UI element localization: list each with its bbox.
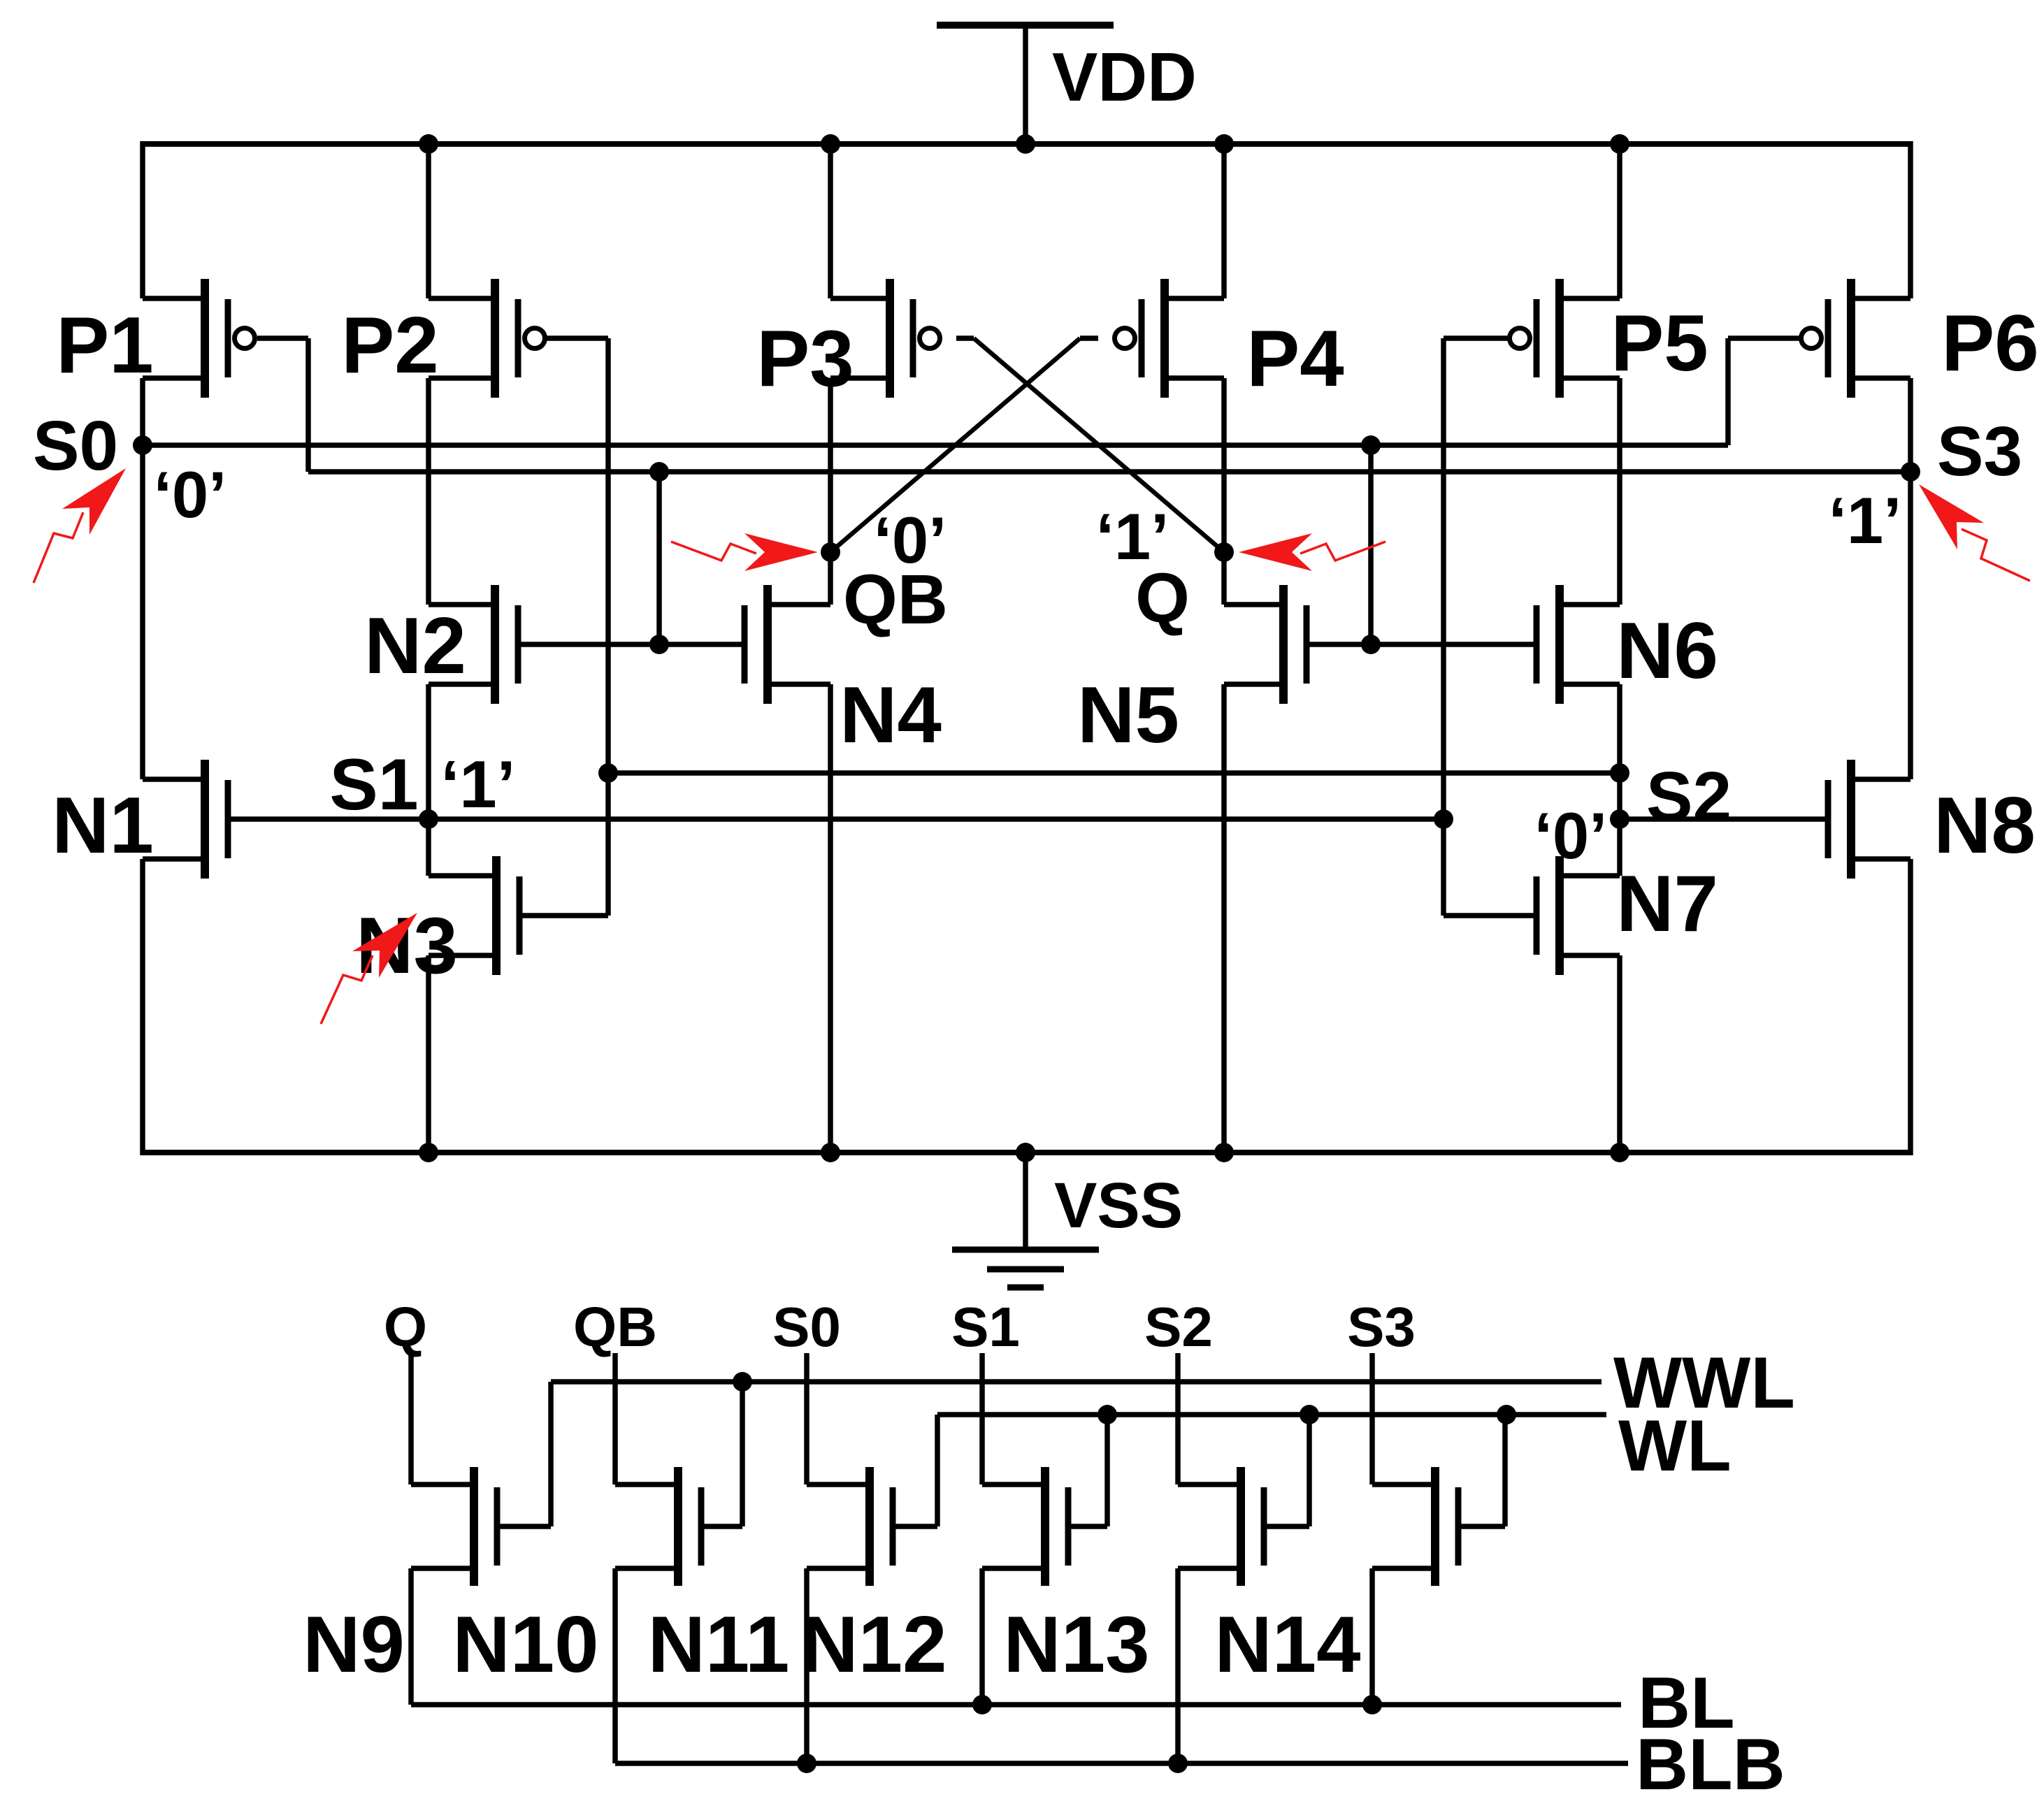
wire VDD rail	[143, 141, 1910, 147]
wire N11 gate lead	[893, 1524, 937, 1529]
wire N5-N6 gate line	[1307, 642, 1536, 647]
label S1 node	[329, 744, 418, 825]
label S0 terminal	[772, 1296, 841, 1358]
node VDD rail junction P4	[1214, 134, 1234, 154]
wire S0 line	[143, 442, 1728, 448]
svg-text:N13: N13	[1003, 1601, 1149, 1689]
label N3	[356, 902, 458, 990]
svg-text:P4: P4	[1246, 315, 1344, 403]
wire N14 gate vertical	[1502, 1415, 1508, 1526]
wire N6 source / N7 drain column (S2 column)	[1617, 684, 1622, 876]
red arrow pointing at S1	[321, 913, 417, 1024]
wire N3 source column	[426, 955, 431, 1153]
svg-text:‘1’: ‘1’	[1829, 484, 1902, 557]
wire N10 source vertical	[612, 1568, 618, 1763]
node S1 line right junction (P5 gate)	[1434, 809, 1453, 829]
node Q	[1214, 542, 1234, 562]
wire S2 terminal vertical to N13 drain	[1175, 1353, 1181, 1484]
node S0 line to N5/N6 gates junction	[1361, 435, 1381, 455]
wire N11 source vertical	[804, 1568, 809, 1763]
wire P6 gate to S0 line	[1728, 338, 1801, 445]
transistor P6	[1801, 279, 1911, 398]
label N2	[364, 602, 466, 691]
label N14	[1214, 1601, 1360, 1689]
svg-text:N5: N5	[1077, 671, 1179, 760]
label value 0 at S2	[1534, 799, 1608, 872]
transistor N11	[807, 1467, 893, 1586]
node S2 line left junction (P2 gate)	[598, 763, 618, 783]
svg-text:N6: N6	[1616, 607, 1718, 695]
label Q terminal	[384, 1296, 427, 1358]
wire N2 source / N3 drain column (S1 column)	[426, 684, 431, 876]
label N12	[800, 1601, 947, 1689]
wire P5 gate vertical to S1 line and N7 gate	[1444, 338, 1510, 916]
wire P5 drain column	[1617, 144, 1622, 298]
transistor P2	[429, 279, 545, 398]
label N13	[1003, 1601, 1149, 1689]
node S2	[1610, 763, 1629, 783]
label S3 terminal	[1347, 1296, 1416, 1358]
wire WL line	[937, 1412, 1606, 1417]
transistor P1	[143, 279, 255, 398]
label QB terminal	[573, 1296, 657, 1358]
label N8	[1934, 781, 2036, 870]
svg-text:QB: QB	[573, 1296, 657, 1358]
wire P4 drain column	[1221, 144, 1227, 298]
wire P3 source / N4 drain column (QB column)	[828, 378, 833, 605]
wire N2-N4 gate line	[518, 642, 744, 647]
node QB	[821, 542, 840, 562]
label S2 terminal	[1144, 1296, 1213, 1358]
svg-text:VDD: VDD	[1052, 38, 1197, 115]
wire P2 source / N2 drain column	[426, 378, 431, 605]
wire left edge middle segment (S0 column)	[140, 378, 145, 779]
svg-text:N14: N14	[1214, 1601, 1360, 1689]
svg-text:‘0’: ‘0’	[154, 458, 227, 531]
red arrow pointing at Q	[1239, 533, 1386, 571]
wire N2-N4 gates to S3 line vertical	[656, 472, 662, 644]
transistor N1	[143, 760, 228, 879]
label N6	[1616, 607, 1718, 695]
wire S1 / N1 gate line	[228, 816, 1444, 822]
svg-text:N4: N4	[840, 671, 942, 760]
svg-text:BLB: BLB	[1636, 1724, 1785, 1805]
node VSS rail junction N5	[1214, 1143, 1234, 1162]
label S0	[33, 407, 118, 485]
label value 0 at QB	[874, 503, 947, 577]
node BLB junction N13 source	[1168, 1754, 1188, 1773]
VDD supply symbol	[937, 25, 1114, 144]
svg-text:S0: S0	[772, 1296, 841, 1358]
label value 1 at Q	[1096, 500, 1169, 573]
node N5-N6 gate junction	[1361, 635, 1381, 654]
transistor N7	[1536, 856, 1620, 975]
svg-text:N9: N9	[303, 1601, 405, 1689]
svg-text:N1: N1	[52, 781, 154, 870]
label value 0 at S0	[154, 458, 227, 531]
wire S0 terminal vertical to N11 drain	[804, 1353, 809, 1484]
label S1 terminal	[951, 1296, 1020, 1358]
label P3	[756, 315, 854, 403]
node BL junction N14 source	[1362, 1695, 1382, 1714]
wire P1 gate to S3 line	[257, 338, 308, 472]
node VSS rail junction N3	[419, 1143, 438, 1162]
label N4	[840, 671, 942, 760]
wire N9 gate lead	[497, 1524, 551, 1529]
svg-text:‘1’: ‘1’	[441, 747, 516, 822]
node BL junction N12 source	[972, 1695, 992, 1714]
label N11	[648, 1601, 790, 1689]
wire right edge lower segment	[1908, 859, 1913, 1155]
wire N5-N6 gates to S0 line vertical	[1368, 445, 1374, 644]
svg-text:N11: N11	[648, 1601, 790, 1689]
label P1	[56, 301, 153, 390]
svg-text:S0: S0	[33, 407, 118, 485]
transistor P3	[830, 279, 940, 398]
label S2 node	[1646, 758, 1732, 836]
svg-text:P2: P2	[341, 301, 438, 390]
wire N7 gate lead	[1444, 913, 1537, 918]
node S0	[133, 435, 152, 455]
node WL junction N14 gate	[1497, 1405, 1516, 1424]
transistor N6	[1536, 585, 1620, 704]
red arrow pointing at QB	[671, 533, 818, 571]
wire N10 gate vertical	[740, 1382, 745, 1526]
svg-text:‘1’: ‘1’	[1096, 500, 1169, 573]
wire N8 gate line	[1620, 816, 1828, 822]
node VSS rail junction VSS stem	[1016, 1143, 1035, 1162]
svg-text:‘0’: ‘0’	[1534, 799, 1608, 872]
svg-text:S3: S3	[1937, 412, 2022, 491]
transistor N13	[1178, 1467, 1264, 1586]
transistor N12	[982, 1467, 1068, 1586]
svg-text:N8: N8	[1934, 781, 2036, 870]
wire N11 gate vertical	[935, 1415, 940, 1526]
label P4	[1246, 315, 1344, 403]
transistor N8	[1828, 760, 1910, 879]
wire N9 source vertical	[408, 1568, 414, 1705]
node WWL junction N10 gate	[733, 1372, 752, 1392]
svg-text:‘0’: ‘0’	[874, 503, 947, 577]
label WWL	[1613, 1343, 1795, 1424]
VDD label	[1052, 38, 1197, 115]
label P2	[341, 301, 438, 390]
wire N12 gate lead	[1068, 1524, 1107, 1529]
svg-text:N12: N12	[800, 1601, 947, 1689]
node VDD rail junction P3	[821, 134, 840, 154]
wire VSS rail	[143, 1150, 1910, 1155]
label N7	[1616, 860, 1718, 948]
wire P4 gate cross-couple to node QB	[830, 338, 1098, 552]
node VSS rail junction N4	[821, 1143, 840, 1162]
node VDD rail junction VDD stem	[1016, 134, 1035, 154]
wire N12 gate vertical	[1104, 1415, 1110, 1526]
node N2-N4 gate junction	[649, 635, 669, 654]
svg-text:N10: N10	[452, 1601, 598, 1689]
wire P3 drain column	[828, 144, 833, 298]
node S3 line to N2/N4 gates junction	[649, 462, 669, 482]
wire N7 source column	[1617, 955, 1622, 1153]
label N1	[52, 781, 154, 870]
wire P5 source / N6 drain column	[1617, 378, 1622, 605]
svg-text:N7: N7	[1616, 860, 1718, 948]
wire N14 gate lead	[1458, 1524, 1505, 1529]
wire S1 terminal vertical to N12 drain	[979, 1353, 985, 1484]
label value 1 at S3	[1829, 484, 1902, 557]
node N8 gate to S2 column junction	[1610, 809, 1629, 829]
transistor N10	[615, 1467, 701, 1586]
wire right edge upper segment	[1908, 141, 1913, 298]
svg-text:S1: S1	[951, 1296, 1020, 1358]
VSS label	[1054, 1170, 1183, 1241]
svg-text:VSS: VSS	[1054, 1170, 1183, 1241]
transistor N4	[744, 585, 830, 704]
label BLB	[1636, 1724, 1785, 1805]
wire P3 gate cross-couple to node Q	[956, 338, 1224, 552]
svg-text:P3: P3	[756, 315, 854, 403]
wire N5 source column	[1221, 684, 1227, 1153]
wire N4 source column	[828, 684, 833, 1153]
transistor P4	[1115, 279, 1225, 398]
label N9	[303, 1601, 405, 1689]
wire N9 gate vertical	[548, 1382, 554, 1526]
red arrow pointing at S0	[34, 468, 126, 583]
label N10	[452, 1601, 598, 1689]
node S1	[419, 809, 438, 829]
node WL junction N12 gate	[1097, 1405, 1117, 1424]
node VDD rail junction P2	[419, 134, 438, 154]
wire N13 gate vertical	[1307, 1415, 1312, 1526]
label BL	[1638, 1663, 1735, 1744]
svg-text:P5: P5	[1611, 299, 1708, 388]
label WL	[1618, 1406, 1732, 1487]
label P6	[1941, 299, 2038, 388]
svg-text:WL: WL	[1618, 1406, 1732, 1487]
svg-text:S3: S3	[1347, 1296, 1416, 1358]
node BLB junction N11 source	[797, 1754, 816, 1773]
wire N13 source vertical	[1175, 1568, 1181, 1763]
label N5	[1077, 671, 1179, 760]
wire left edge upper segment	[140, 141, 145, 298]
transistor P5	[1510, 279, 1620, 398]
wire N3 gate lead	[519, 913, 608, 918]
wire Q terminal vertical to N9 drain	[408, 1353, 414, 1484]
ground VSS symbol	[952, 1153, 1099, 1287]
transistor N5	[1224, 585, 1307, 704]
node S3	[1901, 462, 1920, 482]
transistor N9	[411, 1467, 497, 1586]
wire S3 terminal vertical to N14 drain	[1369, 1353, 1375, 1484]
wire BL line	[411, 1702, 1621, 1707]
wire left edge lower segment	[140, 859, 145, 1155]
wire right edge middle segment (S3 column)	[1908, 378, 1913, 779]
svg-text:P6: P6	[1941, 299, 2038, 388]
wire WWL line	[551, 1379, 1602, 1385]
node VSS rail junction N7	[1610, 1143, 1629, 1162]
wire S3 line	[308, 469, 1910, 475]
transistor N2	[429, 585, 518, 704]
svg-text:N2: N2	[364, 602, 466, 691]
label QB node	[843, 561, 948, 639]
wire QB terminal vertical to N10 drain	[612, 1353, 618, 1484]
label value 1 at S1	[441, 747, 516, 822]
wire P4 source / N5 drain column (Q column)	[1221, 378, 1227, 605]
wire N13 gate lead	[1264, 1524, 1309, 1529]
svg-text:P1: P1	[56, 301, 153, 390]
transistor N14	[1372, 1467, 1458, 1586]
svg-text:S2: S2	[1144, 1296, 1213, 1358]
label P5	[1611, 299, 1708, 388]
red arrow pointing at S3	[1919, 484, 2030, 581]
wire BLB line	[615, 1761, 1628, 1766]
svg-text:Q: Q	[384, 1296, 427, 1358]
wire P2 drain column	[426, 144, 431, 298]
wire P2 gate vertical to S2 line and N3 gate	[545, 338, 608, 916]
wire N12 source vertical	[979, 1568, 985, 1705]
wire N14 source vertical	[1369, 1568, 1375, 1705]
label S3 node	[1937, 412, 2022, 491]
node WL junction N13 gate	[1300, 1405, 1319, 1424]
label Q node	[1135, 559, 1190, 637]
wire S2 line horizontal	[608, 770, 1620, 776]
wire N10 gate lead	[701, 1524, 742, 1529]
transistor N3	[429, 856, 519, 975]
svg-text:S1: S1	[329, 744, 418, 825]
node VDD rail junction P5	[1610, 134, 1629, 154]
svg-text:S2: S2	[1646, 758, 1732, 836]
